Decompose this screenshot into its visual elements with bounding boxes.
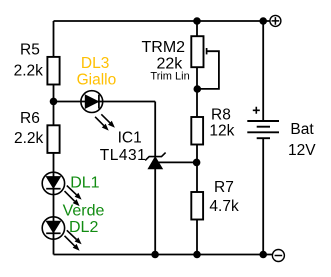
svg-text:2.2k: 2.2k <box>14 62 44 79</box>
resistor R7 <box>191 192 203 220</box>
wire DL3 to TL431 cathode <box>154 102 156 157</box>
wire R6 to DL1 <box>53 153 55 172</box>
svg-text:IC1: IC1 <box>118 129 142 146</box>
wire DL3 branch horizontal <box>54 101 156 103</box>
terminal negative - <box>272 250 284 262</box>
svg-text:TRM2: TRM2 <box>142 39 186 56</box>
resistor R5 <box>47 57 59 85</box>
svg-text:Verde: Verde <box>63 203 105 220</box>
resistor R8 <box>191 117 203 145</box>
svg-text:R6: R6 <box>20 110 40 127</box>
wire rail to TRM2 <box>196 21 198 36</box>
svg-text:4.7k: 4.7k <box>209 198 239 215</box>
terminal positive + <box>270 15 281 26</box>
svg-text:DL2: DL2 <box>69 219 98 236</box>
wire bottom negative rail <box>54 254 273 256</box>
svg-text:12V: 12V <box>288 142 316 159</box>
wire battery - to bottom rail <box>262 138 264 254</box>
wire DL1 to DL2 <box>53 195 55 217</box>
trimmer TRM2 <box>191 36 219 89</box>
svg-text:Bat: Bat <box>290 121 314 138</box>
wire left branch top (rail to R5) <box>53 21 55 57</box>
LED DL2 <box>42 217 81 251</box>
wire TL431 anode to bottom rail <box>154 169 156 255</box>
LED DL1 <box>42 172 81 206</box>
junction node TRM2 wiper / R8 <box>194 85 202 93</box>
svg-text:DL1: DL1 <box>70 175 99 192</box>
wire R5 to R6 <box>53 85 55 126</box>
junction node top rail / battery <box>259 17 267 25</box>
svg-text:R5: R5 <box>20 41 40 58</box>
wire TL431 ref to R8/R7 node <box>158 161 197 163</box>
battery Bat 12V <box>247 107 279 138</box>
junction node battery / bottom rail <box>259 251 267 259</box>
wire TRM2 to R8 <box>196 67 198 117</box>
junction node R8/R7/ref <box>193 159 201 167</box>
svg-text:12k: 12k <box>209 123 234 140</box>
wire rail to battery + <box>262 21 264 121</box>
svg-text:2.2k: 2.2k <box>14 130 44 147</box>
wire R7 to bottom rail <box>196 220 198 255</box>
shunt regulator IC1 TL431 <box>145 153 165 169</box>
svg-text:R8: R8 <box>211 107 231 124</box>
wire top positive rail <box>54 20 270 22</box>
junction node top rail / TRM2 <box>193 17 201 25</box>
wire node to R7 <box>196 162 198 192</box>
svg-text:Giallo: Giallo <box>77 71 117 88</box>
wire DL2 to bottom rail <box>53 239 55 254</box>
svg-text:Trim Lin: Trim Lin <box>150 70 189 82</box>
junction node R5/R6/DL3 <box>50 98 58 106</box>
svg-text:R7: R7 <box>214 179 234 196</box>
resistor R6 <box>47 125 59 153</box>
svg-text:DL3: DL3 <box>81 55 109 72</box>
wire R8 to node <box>196 145 198 163</box>
junction node TL431 anode / bottom rail <box>151 251 159 259</box>
LED DL3 <box>81 91 115 131</box>
svg-text:TL431: TL431 <box>100 147 146 164</box>
junction node R7 / bottom rail <box>193 251 201 259</box>
